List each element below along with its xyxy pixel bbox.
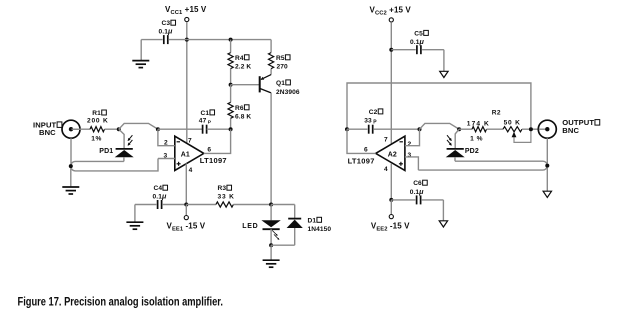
wire LED to ground (270, 245, 272, 260)
chassis ground at output BNC (543, 191, 551, 197)
resistor R5 (269, 53, 291, 71)
svg-text:PD1: PD1 (99, 148, 113, 155)
svg-text:0.1μ: 0.1μ (410, 37, 424, 46)
junction node B (156, 127, 160, 131)
svg-text:VEE2 -15 V: VEE2 -15 V (371, 221, 410, 232)
svg-text:0.1μ: 0.1μ (159, 26, 173, 35)
svg-text:7: 7 (188, 138, 192, 145)
wire VCC1 rail vertical (186, 22, 188, 144)
svg-text:270: 270 (277, 64, 289, 71)
wire hump over right (420, 123, 460, 129)
svg-text:0.1μ: 0.1μ (153, 192, 167, 201)
wire LED node to D1 (271, 205, 295, 219)
wire shield loop left (71, 159, 158, 171)
node VCC2 supply terminal (370, 5, 412, 22)
potentiometer 50K (503, 119, 522, 131)
wire R1 to node (105, 128, 119, 130)
wire C6 row (391, 200, 443, 221)
LED optocoupler emitter (242, 205, 280, 246)
ground at LED (263, 260, 280, 267)
wire BNC shield drop (70, 138, 72, 164)
wire PD2 drop (455, 129, 459, 148)
svg-text:BNC: BNC (39, 128, 56, 137)
svg-text:4: 4 (189, 167, 193, 174)
svg-text:LT1097: LT1097 (348, 156, 375, 165)
svg-text:LT1097: LT1097 (200, 156, 227, 165)
node VEE2 supply terminal (371, 200, 410, 232)
wire PD1 to loop (123, 157, 125, 161)
wire to input ground (70, 168, 72, 187)
wire Q1 base (231, 84, 259, 86)
svg-text:2N3906: 2N3906 (276, 89, 300, 96)
svg-text:6: 6 (207, 146, 211, 153)
junction C2 left node (345, 127, 349, 131)
junction output node (529, 127, 533, 131)
wire pin2 drop (158, 129, 175, 146)
junction LED cathode node (269, 243, 273, 247)
svg-text:R2: R2 (492, 109, 501, 116)
svg-text:A1: A1 (181, 151, 190, 158)
wire 174K to 50K (487, 128, 504, 130)
op-amp A2 (348, 136, 412, 173)
junction C2 right node (418, 127, 422, 131)
capacitor C2 (364, 109, 383, 134)
wire C4 row (135, 205, 186, 223)
capacitor C6 (410, 180, 428, 204)
svg-text:LED: LED (242, 223, 258, 230)
wire shield loop right (418, 161, 547, 170)
wire PD2 to loop (454, 157, 456, 161)
resistor R1 (87, 110, 109, 143)
wire shield to chassis ground (546, 168, 548, 192)
svg-text:R4: R4 (235, 55, 244, 62)
svg-text:R6: R6 (235, 105, 244, 112)
photodiode PD2 (446, 135, 479, 157)
wire R6 leads (230, 85, 232, 130)
wire A2 output (347, 129, 376, 153)
wire node B to C1 (158, 128, 203, 130)
junction C1/R6/output node (229, 127, 233, 131)
wire A1 output to node (204, 129, 231, 153)
wire Q1 collector vertical (270, 93, 272, 205)
wire top rail horizontal (187, 39, 271, 41)
wire hump over (119, 123, 158, 129)
wire BNC to R1 (72, 128, 91, 130)
svg-text:33 P: 33 P (364, 118, 377, 126)
svg-text:47 P: 47 P (199, 118, 212, 126)
wire VCC2 rail vertical (390, 22, 392, 143)
junction VEE1 node (184, 203, 188, 207)
svg-text:6.8 K: 6.8 K (235, 114, 251, 121)
capacitor C1 (199, 110, 215, 134)
svg-text:33 K: 33 K (218, 194, 235, 201)
wire A2 pin2 drop (405, 129, 420, 146)
svg-text:C6: C6 (413, 180, 422, 187)
ground at C4 (126, 222, 143, 229)
svg-text:R1: R1 (92, 110, 101, 117)
wire C3 to rail (141, 40, 187, 61)
chassis ground at C5 (440, 71, 448, 77)
node VEE1 supply terminal (167, 205, 206, 233)
wire pin3 stub (158, 158, 175, 160)
capacitor C4 (153, 185, 168, 209)
svg-text:1 %: 1 % (470, 135, 483, 142)
svg-text:2.2 K: 2.2 K (235, 64, 251, 71)
transistor Q1 (260, 75, 300, 96)
ground at input BNC (62, 187, 79, 194)
svg-text:2: 2 (408, 141, 412, 148)
svg-text:1N4150: 1N4150 (308, 226, 332, 233)
wire feedback top (347, 83, 531, 129)
capacitor C5 (410, 30, 428, 54)
junction output shield node (545, 164, 549, 168)
junction PD2 node (457, 127, 461, 131)
wire BNC shield drop right (546, 138, 548, 163)
diode D1 (271, 217, 331, 245)
junction VEE2 node (389, 198, 393, 202)
svg-text:3: 3 (408, 152, 412, 159)
resistor R3 (216, 185, 235, 207)
svg-text:50 K: 50 K (504, 119, 521, 126)
junction LED anode node (269, 203, 273, 207)
svg-text:R5: R5 (276, 55, 285, 62)
svg-text:Figure 17. Precision analog is: Figure 17. Precision analog isolation am… (18, 297, 224, 309)
junction R4 top (229, 38, 233, 42)
wire A1 pin4 vertical (185, 163, 187, 204)
wire A2 pin4 vertical (390, 163, 392, 200)
wire node A to PD1 (119, 129, 124, 148)
wire A2 pin3 stub (405, 157, 419, 170)
svg-text:1%: 1% (91, 136, 102, 143)
capacitor C3 (159, 20, 176, 44)
resistor R4 (228, 53, 251, 71)
svg-text:200 K: 200 K (87, 118, 109, 125)
svg-text:VCC1 +15 V: VCC1 +15 V (165, 5, 207, 16)
connector J2 output BNC (538, 118, 599, 138)
wire C5 row (391, 50, 444, 72)
op-amp A1 (164, 136, 227, 174)
wire VEE1 to R3 (186, 204, 216, 206)
wiper of 50K (512, 129, 531, 142)
connector J1 input BNC (33, 120, 80, 138)
svg-text:BNC: BNC (562, 126, 579, 135)
wire R5 leads (270, 40, 272, 75)
junction shield/ground (69, 164, 73, 168)
wire 50K to BNC (522, 128, 546, 130)
svg-text:C1: C1 (201, 110, 210, 117)
ground at C3 (132, 61, 149, 68)
node VCC1 supply terminal (165, 5, 207, 22)
wire C2 row (347, 128, 420, 130)
svg-text:VCC2 +15 V: VCC2 +15 V (370, 5, 412, 16)
wire PD2 node to R2 (459, 128, 472, 130)
wire R4 leads (230, 40, 232, 85)
svg-text:4: 4 (384, 166, 388, 173)
svg-text:C2: C2 (369, 109, 378, 116)
photodiode PD1 (99, 135, 133, 157)
resistor R2 174K (467, 109, 501, 142)
svg-text:174 K: 174 K (467, 120, 490, 127)
svg-text:R3: R3 (218, 185, 227, 192)
svg-text:D1: D1 (308, 217, 317, 224)
resistor R6 (228, 102, 251, 120)
svg-text:A2: A2 (388, 151, 397, 158)
junction summing node A (117, 127, 121, 131)
caption figure 17 (18, 297, 224, 309)
wire C1 to junction (207, 128, 231, 130)
svg-text:Q1: Q1 (276, 80, 285, 87)
svg-text:PD2: PD2 (465, 148, 479, 155)
junction VCC1 node (185, 38, 189, 42)
junction VCC2 node (389, 48, 393, 52)
svg-text:VEE1 -15 V: VEE1 -15 V (167, 221, 206, 232)
svg-text:0.1μ: 0.1μ (410, 187, 424, 196)
junction Q1 base node (229, 83, 233, 87)
chassis ground at C6 (439, 221, 447, 227)
svg-text:6: 6 (364, 146, 368, 153)
wire R3 to LED node (233, 204, 271, 206)
svg-text:7: 7 (384, 137, 388, 144)
